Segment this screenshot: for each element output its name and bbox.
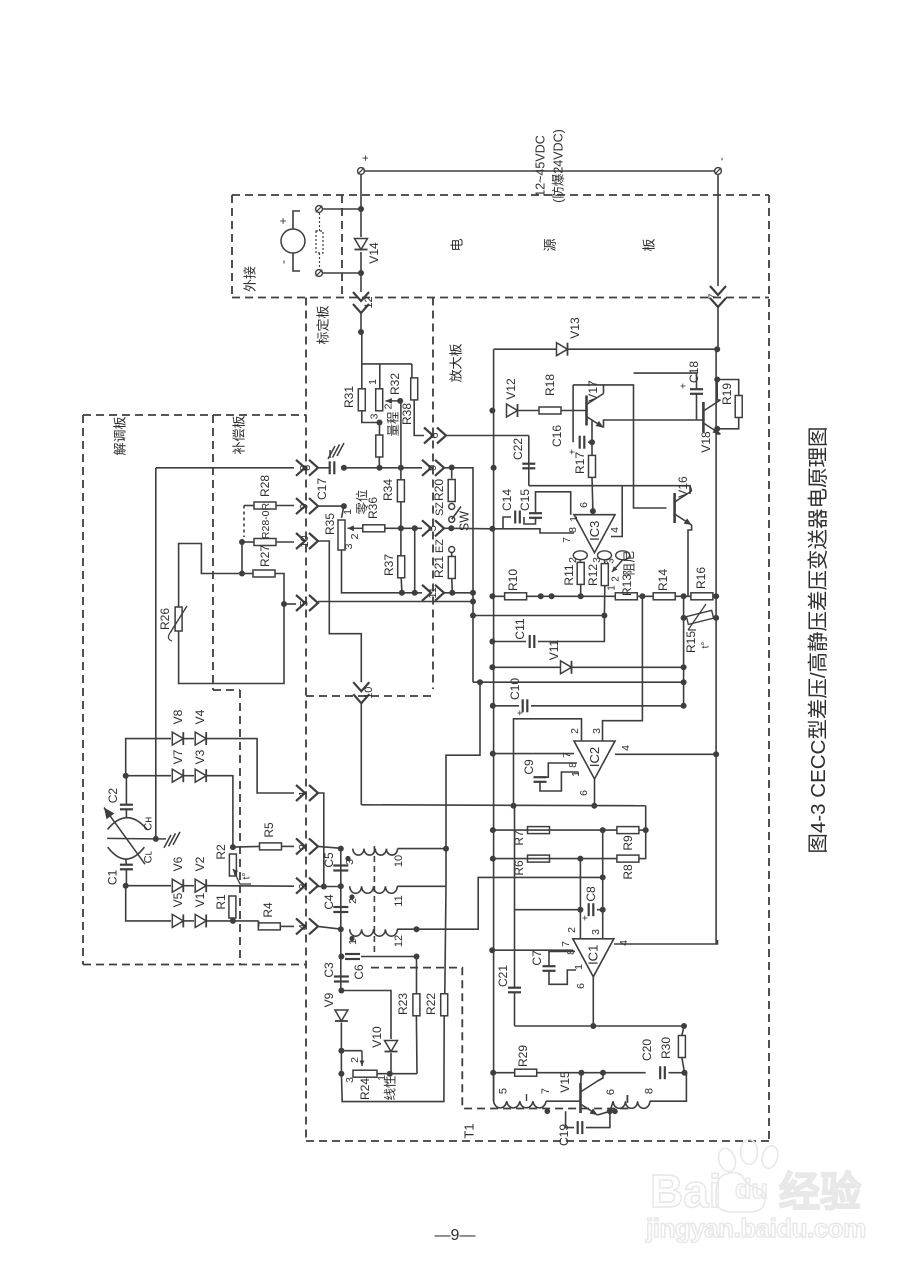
wire C9 pin1: [540, 772, 578, 791]
capacitor C4: [333, 907, 348, 912]
chev2 num: [297, 844, 309, 850]
wire R31 pot top bus: [362, 363, 412, 365]
label V16: [676, 476, 690, 498]
R35 pin2: [349, 533, 361, 539]
chev4 num: [297, 924, 309, 930]
wire R30 top: [682, 1026, 684, 1036]
wire R32 to chevron6: [414, 400, 424, 436]
svg-text:2: 2: [349, 1057, 361, 1063]
wire R35 top: [342, 506, 344, 518]
bottom border: [306, 1140, 769, 1142]
wire V9 bottom: [340, 1023, 342, 1074]
wire R21 bottom: [451, 579, 454, 593]
winding 8 num: [644, 1088, 656, 1094]
capacitor C2: [120, 805, 133, 810]
wire row4 to R4: [207, 920, 259, 922]
svg-text:+: +: [360, 155, 372, 161]
wire busA to winding5: [493, 1073, 495, 1102]
resistor R7: [528, 827, 550, 834]
R35 pin3: [343, 543, 355, 549]
junction bus9 C17: [341, 465, 347, 471]
svg-text:R12: R12: [586, 564, 600, 586]
label V15: [558, 1071, 572, 1093]
junction busA C10: [490, 703, 496, 709]
junction y877 R7col: [600, 874, 606, 880]
label R19: [720, 383, 734, 405]
junction C6 right: [414, 954, 420, 960]
sensor arrow: [104, 808, 145, 865]
svg-text:2: 2: [347, 898, 359, 904]
label R24: [358, 1078, 372, 1100]
svg-text:放大板: 放大板: [448, 343, 463, 382]
label CL: [142, 850, 154, 863]
svg-text:11: 11: [427, 587, 439, 598]
wire base row right: [581, 1072, 645, 1074]
junction V9 top: [338, 988, 344, 994]
junction R12 line: [601, 613, 607, 619]
svg-text:外接: 外接: [242, 266, 257, 292]
junction R37 row11: [399, 590, 405, 596]
chev5l num: [298, 600, 310, 606]
svg-text:R1: R1: [214, 894, 228, 910]
pot wiper arrow: [386, 398, 401, 404]
svg-text:C14: C14: [500, 489, 514, 511]
junction plus-b: [358, 270, 364, 276]
winding 7 num: [540, 1088, 552, 1094]
wire row10 bus: [492, 595, 716, 597]
IC2 pin3 num: [591, 728, 603, 734]
svg-text:8: 8: [644, 1088, 656, 1094]
label biaodingban: [315, 305, 330, 344]
op-amp IC1: [573, 939, 614, 977]
wire winding12 to R7: [417, 877, 603, 929]
wire C19 left: [566, 1111, 574, 1127]
wire C1 top: [125, 860, 128, 865]
junction R21 row11: [449, 590, 455, 596]
svg-text:7: 7: [561, 537, 573, 543]
resistor R23: [413, 994, 420, 1016]
winding pin 1: [347, 939, 359, 945]
ground sensor: [157, 832, 180, 848]
svg-text:2: 2: [349, 533, 361, 539]
label R30: [659, 1037, 673, 1059]
external box divider: [341, 195, 343, 298]
resistor R5: [260, 843, 282, 850]
svg-text:R36: R36: [366, 497, 380, 519]
wire IC1 pin4: [614, 940, 718, 944]
wire C18 bottom: [696, 394, 698, 420]
wire connector to node: [360, 313, 362, 332]
resistor R28: [254, 502, 276, 509]
resistor R34: [397, 480, 404, 502]
svg-text:R21: R21: [432, 556, 446, 578]
svg-text:R28: R28: [258, 475, 272, 497]
C10 plus: [516, 710, 527, 716]
connector pin 6: [424, 428, 446, 444]
potentiometer R35: [338, 520, 345, 550]
terminal ext bottom: [316, 270, 323, 277]
winding 5-7: [494, 1101, 546, 1108]
wire 8bus corner: [155, 468, 157, 839]
winding 6-8: [613, 1101, 650, 1108]
label linearity: [383, 1075, 397, 1100]
switch contact mid: [449, 516, 455, 522]
C18 plus: [679, 383, 690, 389]
resistor R28-0R: [254, 539, 276, 546]
svg-text:C22: C22: [511, 438, 525, 460]
diode V11: [561, 661, 572, 674]
supply top wire: [361, 170, 718, 172]
junction R2 top: [230, 844, 236, 850]
wire R17 to IC3: [591, 477, 594, 511]
R24 pin3: [344, 1077, 356, 1083]
label V4: [193, 709, 207, 724]
junction row10 rail: [713, 593, 719, 599]
calib board bottom border: [306, 695, 433, 697]
resistor R22: [441, 994, 448, 1016]
label R27: [258, 545, 272, 567]
svg-text:源: 源: [542, 238, 557, 251]
calib/amp divider: [432, 298, 434, 690]
label lingwei: [354, 489, 369, 514]
IC3 pin7 num: [561, 537, 573, 543]
resistor R36: [363, 525, 385, 532]
capacitor C5: [333, 866, 348, 871]
R13 wiper arrow: [612, 560, 623, 572]
capacitor C20: [660, 1066, 665, 1079]
capacitor C21: [508, 988, 521, 993]
wire C22 to V16col: [529, 485, 622, 487]
wire row11 right: [443, 592, 473, 594]
svg-text:R38: R38: [400, 403, 414, 425]
label C17: [315, 478, 329, 500]
IC2 pin8 num: [567, 762, 579, 768]
svg-text:R5: R5: [262, 822, 276, 838]
label V13: [568, 317, 582, 339]
wire minus rail top: [494, 348, 718, 350]
wire V10 bottom: [390, 1053, 392, 1074]
C16 plus: [568, 449, 579, 455]
svg-text:(防爆24VDC): (防爆24VDC): [550, 129, 565, 203]
label V10: [370, 1026, 384, 1048]
IC2 pin1 num: [570, 771, 582, 777]
winding 6 dot: [612, 1109, 618, 1115]
diode V3: [195, 769, 206, 782]
winding 7 dot: [545, 1109, 551, 1115]
wire V18 collector: [717, 380, 720, 401]
wire top row to chev1: [207, 739, 294, 793]
svg-text:C11: C11: [513, 618, 527, 639]
transistor V15: [581, 1081, 598, 1115]
connector pins 1-2: [353, 292, 375, 313]
wire C21 bottom: [514, 992, 516, 1026]
wire V12 to R18: [518, 410, 539, 412]
wire R33 bottom: [378, 457, 380, 468]
svg-text:5: 5: [298, 600, 310, 606]
wire R27 left link: [241, 542, 243, 574]
wire R34 bottom: [400, 502, 402, 528]
sensor arc CH: [108, 818, 148, 830]
resistor R21: [448, 557, 455, 579]
wire R37 bottom: [400, 578, 403, 593]
wire C19 loop: [586, 1111, 610, 1127]
junction winding10 right: [443, 846, 449, 852]
resistor R17: [589, 455, 596, 477]
wire V15 base riser: [580, 1073, 583, 1086]
svg-text:V11: V11: [547, 639, 561, 660]
watermark baidu logo: [645, 1140, 866, 1244]
R13 pin3: [606, 558, 617, 564]
R24 pin1: [376, 1075, 388, 1081]
C8 plus: [581, 915, 592, 921]
pot pin1: [367, 379, 379, 385]
junction busA y468: [491, 465, 497, 471]
terminal plus: [358, 168, 365, 175]
wire R8 right: [639, 858, 646, 860]
junction IC1 out: [590, 1023, 596, 1029]
svg-text:+: +: [276, 217, 290, 224]
wire V18 emitter: [717, 429, 720, 434]
svg-text:SW: SW: [457, 511, 471, 531]
svg-text:du: du: [735, 1174, 768, 1204]
winding 12: [350, 929, 398, 936]
power board left border: [231, 195, 233, 298]
wire R18 to V17: [561, 410, 587, 412]
svg-text:1: 1: [347, 939, 359, 945]
svg-text:4: 4: [609, 527, 621, 533]
svg-text:SZ: SZ: [434, 502, 446, 516]
junction busA IC1pin7: [489, 947, 495, 953]
junction R24 left: [338, 1071, 344, 1077]
chev3 num: [297, 883, 309, 889]
resistor R1: [229, 896, 236, 918]
capacitor C22: [522, 464, 535, 469]
wire V7 left: [126, 775, 171, 777]
svg-text:5: 5: [427, 525, 439, 531]
connector pin 5 left: [296, 595, 318, 611]
resistor R19: [735, 396, 742, 418]
wire center tap riser: [446, 682, 480, 886]
label R26: [158, 608, 172, 630]
svg-text:R27: R27: [258, 545, 272, 567]
svg-text:V8: V8: [171, 709, 185, 724]
wire C11 right: [538, 616, 604, 642]
winding 11 num: [393, 895, 405, 906]
wire V17 collector: [573, 385, 603, 394]
label R16: [694, 567, 708, 589]
label C1: [106, 869, 120, 885]
svg-text:R37: R37: [382, 554, 396, 576]
wire out to R9R8: [645, 806, 647, 860]
resistor R33: [376, 435, 383, 457]
svg-text:8: 8: [298, 465, 310, 471]
wire IC2 pin3: [603, 596, 643, 741]
label V17: [586, 380, 600, 402]
label V1: [193, 892, 207, 907]
wire IC3 pin4: [611, 486, 622, 537]
wire R37 column: [400, 528, 402, 556]
junction pot3: [377, 420, 383, 426]
svg-text:R26: R26: [158, 608, 172, 630]
label V8: [171, 709, 185, 724]
demod board bottom border: [83, 964, 306, 966]
wire C7 pin1: [549, 970, 576, 984]
label V2: [193, 856, 207, 871]
junction R27 left: [239, 571, 245, 577]
wire source plus lead: [293, 211, 300, 229]
capacitor C7: [543, 966, 556, 971]
wire V16 emitter: [688, 525, 692, 596]
wire R22 top: [445, 886, 446, 993]
label R13: [620, 574, 634, 596]
label C10: [508, 678, 522, 700]
junction C8 left: [577, 907, 583, 913]
wire winding8 riser: [650, 1073, 687, 1102]
wire chevron6 right: [445, 435, 529, 437]
IC1 pin4 num: [618, 940, 630, 946]
diode V9: [335, 1010, 348, 1021]
resistor R29: [515, 1069, 537, 1076]
junction minus rail: [714, 346, 720, 352]
resistor R12: [601, 564, 608, 586]
svg-text:R34: R34: [381, 479, 395, 501]
resistor R8: [617, 855, 639, 862]
capacitor C17: [330, 461, 335, 474]
svg-text:4: 4: [618, 940, 630, 946]
compensation board divider: [212, 415, 214, 690]
wire R12 line: [473, 615, 604, 617]
svg-text:10: 10: [363, 687, 375, 699]
IC2 pin4 num: [620, 745, 632, 751]
wire row4 jog: [257, 921, 259, 927]
wire R27 left stub: [242, 573, 253, 575]
svg-text:9: 9: [427, 465, 439, 471]
svg-text:R8: R8: [621, 864, 635, 880]
wire R2 to R5: [233, 845, 260, 848]
label V9: [322, 992, 336, 1007]
wire winding12 right: [397, 928, 416, 930]
wire R35 pin3 row: [342, 550, 423, 593]
wire V16 collector riser: [622, 486, 690, 494]
wire C18 top: [634, 373, 697, 389]
svg-text:R14: R14: [656, 569, 670, 591]
label R6: [512, 860, 526, 876]
svg-text:Cʟ: Cʟ: [142, 850, 154, 863]
label C19: [557, 1124, 571, 1146]
label C2: [106, 788, 120, 804]
label SW: [457, 511, 471, 531]
junction V18 emit: [714, 426, 720, 432]
junction chev1 chev3: [321, 884, 327, 890]
junction V15 base: [578, 1070, 584, 1076]
resistor R14: [653, 593, 675, 600]
junction C5 top: [338, 846, 344, 852]
wire chev10 down to out: [360, 703, 362, 805]
svg-text:1: 1: [607, 585, 618, 591]
potentiometer R24: [353, 1070, 377, 1077]
wire collector to V16base: [604, 385, 667, 508]
junction busA y530: [489, 526, 495, 532]
power board top border: [232, 194, 769, 196]
chev9l num: [298, 503, 310, 509]
wire winding10 right: [398, 848, 447, 850]
svg-text:10: 10: [393, 855, 405, 867]
svg-text:3: 3: [591, 557, 603, 563]
junction R6 right: [577, 856, 583, 862]
wire IC2 pin4: [615, 753, 716, 755]
svg-text:C21: C21: [496, 965, 510, 987]
junction y682 right: [681, 679, 687, 685]
wire node to R31: [361, 332, 363, 389]
junction R28-0R left: [239, 539, 245, 545]
potentiometer R2: [229, 854, 236, 876]
label C11: [513, 618, 527, 639]
junction x414 row11: [412, 590, 418, 596]
ground at C17: [328, 443, 344, 459]
wire C15 top: [536, 492, 571, 515]
junction C3 top: [338, 926, 344, 932]
junction x414 top: [412, 525, 418, 531]
connector pin 3: [296, 878, 318, 894]
junction bus9 R20: [449, 465, 455, 471]
source minus: [276, 260, 290, 264]
label C20: [640, 1039, 654, 1061]
label R14: [656, 569, 670, 591]
junction busA R29: [490, 1070, 496, 1076]
wire R7 row: [493, 829, 617, 831]
svg-text:6: 6: [429, 432, 441, 438]
svg-text:12: 12: [393, 935, 405, 947]
wire mid row to R2: [207, 776, 233, 847]
svg-text:C7: C7: [530, 950, 544, 966]
wire C10 right: [531, 705, 684, 707]
diode V7: [172, 769, 183, 782]
wire bus9: [344, 467, 422, 469]
wire R36 right: [385, 527, 423, 529]
svg-text:标定板: 标定板: [315, 305, 330, 344]
resistor R32: [411, 378, 418, 400]
wire EZ to R21: [451, 553, 453, 557]
winding 6 num: [605, 1089, 617, 1095]
resistor R30: [678, 1036, 685, 1058]
pot pin3: [368, 413, 380, 419]
wire R30 bottom: [682, 1058, 685, 1073]
label R22: [424, 993, 438, 1015]
wire R9 right: [639, 829, 646, 831]
capacitor C19: [578, 1121, 583, 1134]
label C16: [550, 425, 564, 447]
label V12: [504, 378, 518, 400]
svg-text:R15: R15: [684, 631, 698, 653]
minus sign: [716, 157, 728, 161]
svg-text:7: 7: [540, 1088, 552, 1094]
junction C4 top: [338, 883, 344, 889]
diode V8: [172, 732, 183, 745]
R24 pin2: [349, 1057, 361, 1063]
transformer core: [373, 846, 375, 952]
junction row10 R16: [681, 593, 687, 599]
svg-text:Bai: Bai: [650, 1165, 722, 1217]
label V5: [171, 892, 185, 907]
wire C8 right: [597, 909, 603, 911]
demod/calib long divider: [305, 298, 307, 1142]
wire IC2 pin7: [493, 753, 574, 755]
compensation board bottom jog: [213, 689, 240, 691]
wire out row: [361, 804, 645, 807]
label CH: [142, 817, 154, 831]
wire minus terminal down: [717, 174, 719, 286]
label R7: [512, 830, 526, 846]
